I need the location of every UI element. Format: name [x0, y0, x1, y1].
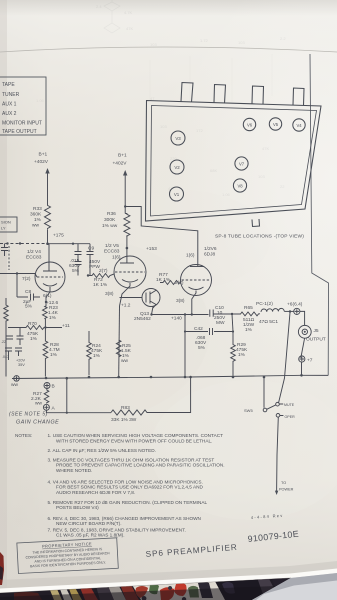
svg-text:68K: 68K: [210, 168, 217, 173]
svg-text:33K 1% 3W: 33K 1% 3W: [111, 417, 137, 423]
svg-text:R65: R65: [244, 305, 253, 311]
svg-text:PPW: PPW: [89, 264, 100, 270]
svg-text:1/2 V5: 1/2 V5: [105, 243, 119, 249]
svg-text:B: B: [52, 384, 55, 390]
svg-text:6DJ8: 6DJ8: [204, 252, 216, 258]
wire gate Q13: [120, 297, 143, 299]
svg-text:1.06: 1.06: [36, 98, 45, 103]
carpet sliver at left edge: [0, 552, 4, 585]
wire to bus: [301, 362, 303, 375]
GHOST show-through faint marks: [36, 0, 286, 197]
capacitor C42 branch: [185, 328, 233, 335]
V4 cathode: [43, 284, 57, 303]
svg-text:ww: ww: [121, 359, 128, 364]
node +175 junction: [46, 242, 49, 245]
right mid brightening: [170, 0, 337, 400]
svg-text:35V: 35V: [18, 363, 25, 367]
TUBEBOX : SP-8 tube locations (top view): [146, 83, 322, 240]
svg-text:MONITOR INPUT: MONITOR INPUT: [2, 121, 42, 127]
tube V7: [235, 157, 248, 170]
resistor R24: [87, 331, 92, 375]
svg-text:SION: SION: [1, 220, 11, 225]
svg-text:TAPE: TAPE: [2, 82, 15, 88]
V4 grid: [37, 276, 63, 278]
svg-text:5%: 5%: [72, 268, 80, 274]
svg-text:360K: 360K: [30, 212, 42, 218]
BORDERS of sheet: [0, 47, 337, 375]
svg-text:1%: 1%: [49, 315, 57, 321]
tube V5 envelope: [114, 256, 146, 288]
svg-text:+140: +140: [171, 316, 182, 322]
svg-text:LY: LY: [1, 226, 6, 231]
svg-text:ECC83: ECC83: [104, 249, 120, 255]
bus junction dots: [45, 377, 48, 380]
svg-text:OUTPUT: OUTPUT: [306, 337, 326, 343]
svg-text:103: 103: [258, 174, 265, 179]
svg-text:TAPE OUTPUT: TAPE OUTPUT: [2, 129, 37, 135]
svg-text:J5: J5: [314, 328, 319, 334]
junction output node: [289, 310, 291, 312]
svg-text:1%: 1%: [245, 327, 253, 333]
svg-text:+11: +11: [62, 323, 70, 329]
svg-text:103: 103: [238, 40, 245, 45]
svg-text:AUX 2: AUX 2: [2, 111, 17, 117]
white paper edge band: [0, 569, 337, 594]
LABELBOX : input selector labels: [0, 77, 46, 135]
bottom tab: [252, 219, 260, 227]
svg-text:C1 WAS .05 µF, R2 WAS 1.8(M).: C1 WAS .05 µF, R2 WAS 1.8(M).: [56, 533, 125, 538]
node +12.6 junction: [45, 301, 47, 303]
left caps row2: [5, 348, 22, 360]
svg-text:ww: ww: [11, 383, 18, 388]
top border (faint): [0, 47, 337, 52]
svg-text:SP-8 TUBE LOCATIONS -(TOP VIEW: SP-8 TUBE LOCATIONS -(TOP VIEW): [215, 234, 304, 240]
switch SW5 feed: [263, 377, 265, 408]
junction R70 / R23 / R28: [44, 326, 46, 328]
svg-text:WITH STORED ENERGY EVEN WITH P: WITH STORED ENERGY EVEN WITH POWER OFF C…: [56, 438, 212, 443]
NOTES text block: [15, 433, 225, 538]
node +153 junction: [126, 247, 129, 250]
mounting tab 1: [181, 83, 193, 103]
svg-text:R33: R33: [33, 206, 42, 212]
svg-text:7(2): 7(2): [22, 276, 31, 282]
subtle paper mottling: [0, 190, 337, 520]
svg-text:+6(6.4): +6(6.4): [287, 302, 303, 308]
V5 grid: [115, 271, 145, 273]
svg-text:V6: V6: [247, 123, 253, 128]
resistor R23: [43, 302, 48, 328]
svg-text:1%: 1%: [238, 352, 246, 358]
svg-text:1%: 1%: [30, 336, 38, 342]
B+1 arrow 2: [124, 174, 126, 214]
svg-text:5%: 5%: [198, 345, 206, 351]
svg-text:PC-1(2): PC-1(2): [256, 301, 273, 307]
tube V6 envelope: [181, 265, 212, 296]
svg-text:AUDIO RESEARCH 6DJ8 FOR V 7,8.: AUDIO RESEARCH 6DJ8 FOR V 7,8.: [56, 490, 135, 495]
V4 grid input wire: [0, 274, 37, 278]
wire jog to V6 plate: [125, 207, 198, 267]
svg-text:1/2V6: 1/2V6: [204, 246, 217, 252]
wire J5 down: [301, 338, 305, 358]
svg-text:2.2: 2.2: [280, 36, 286, 41]
svg-text:MW: MW: [216, 320, 225, 326]
junction above R36: [124, 205, 126, 207]
svg-text:.22: .22: [1, 340, 6, 344]
resistor R25: [116, 340, 121, 357]
svg-text:2(7): 2(7): [99, 268, 108, 274]
wire bus to R83 line: [66, 378, 68, 413]
svg-text:2.4: 2.4: [96, 4, 102, 9]
svg-text:C9: C9: [88, 246, 94, 252]
tube V6: [243, 118, 255, 130]
junction R72 / C9 node: [87, 274, 89, 276]
capacitor C9b: [87, 244, 94, 276]
inductor PC-1: [261, 308, 284, 312]
capacitor C10: [210, 310, 232, 317]
svg-text:1/2 V4: 1/2 V4: [27, 249, 41, 255]
tube V5: [269, 118, 281, 130]
svg-text:1. USE CAUTION WHEN SERVICING: 1. USE CAUTION WHEN SERVICING HIGH VOLTA…: [48, 433, 224, 438]
svg-text:NOTES:: NOTES:: [15, 433, 32, 438]
svg-text:+175: +175: [53, 233, 64, 239]
svg-text:1.06: 1.06: [222, 192, 231, 197]
resistor R77: [160, 281, 181, 285]
resistor R28: [43, 328, 48, 377]
jack J5: [298, 325, 311, 338]
terminal B: [44, 383, 50, 389]
left input network: shielded lead: [0, 243, 47, 245]
V5 plate: [120, 248, 134, 263]
svg-text:1.72: 1.72: [200, 38, 209, 43]
tube V8: [233, 179, 246, 192]
resistor R33: [45, 204, 51, 230]
svg-text:V7: V7: [239, 162, 245, 167]
terminal A: [43, 404, 49, 410]
V5 cathode: [120, 280, 139, 307]
ground bus: [12, 375, 328, 378]
B+1 arrow 1: [47, 172, 49, 204]
mounting tab 4: [293, 88, 304, 106]
tube V4: [293, 119, 305, 131]
bottom-left corner shading: [0, 370, 200, 600]
wire cathode to R25: [118, 306, 121, 377]
svg-text:3(8): 3(8): [105, 291, 114, 297]
svg-text:2N5462: 2N5462: [134, 316, 151, 322]
junction dots on input lead: [6, 242, 8, 244]
wire to J5: [300, 311, 305, 325]
top edge shadow: [0, 0, 337, 16]
test point +7: [299, 356, 305, 362]
shield dashed: [8, 246, 10, 270]
svg-text:V3: V3: [175, 136, 181, 141]
svg-text:TUNER: TUNER: [2, 92, 20, 98]
mounting tab 3: [252, 86, 264, 104]
wire into MUTE contact: [279, 313, 290, 403]
right vertical wire: [310, 54, 329, 375]
svg-text:.047: .047: [2, 355, 9, 359]
wire R33 to +175 node: [47, 230, 49, 244]
svg-text:103: 103: [160, 124, 167, 129]
resistor R29: [231, 332, 236, 376]
svg-text:+402V: +402V: [113, 160, 128, 166]
svg-text:MUTE: MUTE: [284, 403, 295, 407]
svg-text:(SEE NOTE 5): (SEE NOTE 5): [9, 412, 48, 418]
resistor R36: [124, 214, 130, 238]
svg-text:47Ω 5C1: 47Ω 5C1: [259, 319, 278, 325]
proprietary notice box: [17, 538, 118, 574]
svg-text:+1.2: +1.2: [121, 303, 131, 309]
resistor R83: [111, 377, 191, 415]
floor wedge bottom-right: [252, 573, 337, 600]
svg-text:B+1: B+1: [39, 152, 48, 158]
svg-text:1(6): 1(6): [186, 253, 195, 259]
svg-text:2. ALL CAP IN µF; RES 1/2W 5%: 2. ALL CAP IN µF; RES 1/2W 5% UNLESS NOT…: [48, 448, 156, 453]
wire rail to bus at 185: [184, 315, 186, 378]
svg-text:SW5: SW5: [244, 408, 253, 413]
svg-text:47K: 47K: [126, 26, 133, 31]
svg-text:GAIN CHANGE: GAIN CHANGE: [16, 420, 59, 426]
tube V4 envelope: [35, 262, 65, 292]
wire rail to C42 node at R29 column: [232, 314, 233, 332]
svg-text:1% ww: 1% ww: [102, 223, 118, 229]
wire +175 to C9: [48, 243, 91, 245]
svg-text:172: 172: [196, 128, 203, 133]
svg-text:AUX 1: AUX 1: [2, 102, 17, 108]
svg-text:1%: 1%: [93, 353, 101, 359]
svg-text:ww: ww: [35, 402, 42, 407]
svg-text:300K: 300K: [104, 217, 116, 223]
junction at C10 out: [231, 313, 233, 315]
expansion box at left edge: [0, 217, 17, 232]
resistor R83 wire: [46, 410, 111, 412]
left edge darkening strip: [0, 0, 7, 600]
svg-text:4.7K: 4.7K: [124, 10, 133, 15]
tube V3: [171, 131, 185, 145]
TITLES: [17, 513, 300, 574]
tube V2: [170, 160, 184, 174]
V4 plate: [43, 244, 57, 271]
capacitor at input: [1, 244, 8, 257]
svg-text:3(8): 3(8): [176, 298, 185, 304]
svg-text:WHERE NOTED.: WHERE NOTED.: [56, 468, 92, 473]
svg-text:V8: V8: [237, 184, 243, 189]
left resistor: [4, 298, 8, 376]
svg-text:22: 22: [280, 184, 285, 189]
svg-text:1%: 1%: [34, 217, 42, 223]
svg-text:V1: V1: [174, 192, 180, 197]
transistor Q13: [142, 289, 160, 307]
resistor R27: [44, 390, 49, 404]
V6 grid: [182, 279, 211, 281]
capacitor C9a: [75, 244, 82, 276]
svg-text:ECC83: ECC83: [26, 255, 42, 261]
svg-text:47K: 47K: [262, 146, 269, 151]
resistor R70: [8, 326, 62, 330]
rail +140: [152, 314, 209, 316]
chassis inner: [151, 106, 317, 217]
test point +6: [294, 308, 300, 314]
svg-text:POSTS BELOW V4): POSTS BELOW V4): [56, 505, 99, 510]
resistor R65: [232, 312, 260, 316]
svg-text:ww: ww: [32, 224, 39, 229]
bus terminal ww: [14, 376, 20, 382]
mounting tab 2: [214, 85, 226, 104]
junction C9 tap: [72, 243, 74, 245]
svg-text:+20V: +20V: [16, 359, 25, 363]
svg-text:5%: 5%: [25, 304, 33, 310]
tube V1: [170, 187, 184, 201]
chassis outer: [146, 101, 322, 222]
rail junction dots: [150, 313, 152, 315]
svg-text:103: 103: [150, 42, 157, 47]
capacitor C8: [17, 294, 40, 301]
resistor R72: [88, 274, 114, 278]
svg-text:6(1): 6(1): [43, 293, 52, 299]
wire R36 to +153 node: [126, 235, 128, 248]
svg-text:OPER: OPER: [285, 415, 296, 419]
svg-text:V4: V4: [296, 123, 302, 128]
shadow above paper edge: [0, 561, 337, 589]
svg-text:1%: 1%: [50, 352, 58, 358]
left caps row1: [17, 328, 24, 346]
switch SW5 arm: [267, 405, 276, 409]
svg-text:R36: R36: [107, 211, 116, 217]
svg-text:TO: TO: [281, 481, 286, 485]
svg-text:+7: +7: [307, 358, 313, 364]
svg-text:NEW CIRCUIT BOARD P/N(T).: NEW CIRCUIT BOARD P/N(T).: [56, 521, 122, 526]
svg-text:1K 1%: 1K 1%: [93, 282, 108, 288]
svg-text:B+1: B+1: [118, 153, 127, 159]
BOTTOM : paper edge, carpet, floor: [0, 552, 337, 600]
svg-text:+402V: +402V: [34, 159, 49, 165]
wire to power supply: [277, 417, 279, 492]
svg-text:POWER: POWER: [279, 488, 294, 492]
V6 plate: [190, 266, 204, 268]
shadow line below paper edge: [0, 578, 292, 595]
svg-text:+153: +153: [146, 246, 157, 252]
junction on V4 grid line: [16, 272, 18, 274]
svg-text:V2: V2: [174, 165, 180, 170]
svg-text:V5: V5: [273, 122, 279, 127]
V6 cathode: [189, 287, 204, 315]
